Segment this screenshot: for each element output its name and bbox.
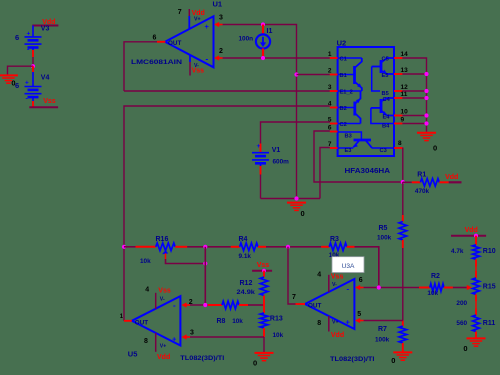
junction pin 10 right vertical	[424, 113, 428, 117]
resistor R8	[208, 304, 222, 306]
wire U2 pin 9 to right vertical	[402, 123, 426, 125]
U2 pin 14 stub	[394, 57, 402, 59]
svg-text:4: 4	[145, 287, 149, 294]
svg-text:HFA3046HA: HFA3046HA	[345, 168, 391, 175]
junction R8 row	[203, 303, 207, 307]
wire ground row	[261, 198, 321, 200]
svg-text:10: 10	[401, 109, 409, 116]
wire left bus (U2 pin4 to U5 out)	[124, 106, 330, 321]
battery V3	[32, 26, 34, 37]
svg-text:E1_2: E1_2	[340, 90, 353, 96]
svg-text:V4: V4	[41, 74, 50, 81]
svg-text:3: 3	[190, 330, 194, 337]
resistor R15 (pot)	[475, 271, 477, 278]
U1 output stub	[157, 41, 165, 43]
wire U5 pin2 to R8	[190, 304, 208, 306]
svg-text:TL082(3D)/TI: TL082(3D)/TI	[330, 356, 375, 363]
svg-text:10k: 10k	[140, 258, 151, 265]
svg-text:+: +	[257, 143, 261, 150]
label box U3A	[332, 257, 364, 273]
wire V1 to ground row	[260, 175, 262, 199]
U2 pin 11 stub	[394, 97, 402, 99]
junction pin 11 right vertical	[424, 96, 428, 100]
svg-text:U1: U1	[213, 0, 223, 9]
svg-text:+: +	[27, 30, 31, 37]
transistor Q3 (U2)	[338, 132, 362, 139]
wire R1 node down to R5	[402, 182, 404, 215]
svg-text:+: +	[25, 79, 29, 86]
IC U2 box	[338, 47, 394, 156]
svg-text:E5: E5	[382, 73, 389, 79]
wire U1 pin3 row to I1 top and corner	[223, 25, 297, 75]
power symbol Vdd (R1)	[449, 181, 462, 183]
transistor Q1 (U2)	[353, 66, 356, 84]
svg-text:13: 13	[401, 67, 409, 74]
svg-text:2: 2	[219, 48, 223, 55]
svg-text:R3: R3	[330, 236, 339, 243]
junction R1 node	[401, 180, 405, 184]
wire R15 to R11	[475, 301, 477, 308]
svg-text:Vss: Vss	[158, 288, 171, 295]
resistor R5	[402, 215, 404, 222]
svg-text:R13: R13	[270, 315, 283, 322]
svg-text:3: 3	[328, 84, 332, 91]
svg-text:R5: R5	[379, 225, 388, 232]
U2 pin 2 stub	[330, 74, 338, 76]
op-amp U3A	[305, 279, 354, 329]
svg-text:Vdd: Vdd	[465, 227, 478, 234]
power symbol Vss (R12)	[252, 270, 272, 272]
ground 0 (supply)	[0, 74, 18, 76]
U2 internal row B2	[338, 107, 355, 109]
svg-text:C5: C5	[382, 57, 389, 63]
power symbol Vss (bottom of V4)	[29, 106, 58, 108]
svg-text:6: 6	[153, 34, 157, 41]
svg-text:Vss: Vss	[257, 262, 270, 269]
ground 0 (R7)	[393, 351, 412, 353]
svg-text:Vss: Vss	[331, 273, 344, 280]
junction Vdd bar	[474, 234, 478, 238]
svg-text:V+: V+	[332, 319, 339, 325]
wire U2 pin3 row	[124, 90, 330, 92]
svg-text:V+: V+	[194, 16, 201, 22]
svg-text:10k: 10k	[232, 318, 243, 325]
U5 pin3 arrow	[181, 334, 186, 339]
svg-text:I1: I1	[267, 28, 273, 35]
U3A V+ pin (pin 8)	[328, 316, 330, 332]
junction R16/R4 row	[203, 245, 207, 249]
wire R16 wiper loop	[166, 259, 206, 264]
resistor R1	[403, 181, 412, 183]
svg-text:Vdd: Vdd	[445, 174, 458, 181]
svg-text:0: 0	[391, 356, 395, 365]
svg-text:C4: C4	[383, 97, 391, 103]
svg-text:E3: E3	[345, 148, 352, 154]
junction node V3/V4	[31, 64, 35, 68]
wire U2 pin8 down to R1 node	[402, 148, 404, 183]
U2 pin 9 stub	[394, 123, 402, 125]
U1 pin2 arrow	[214, 55, 219, 60]
resistor R13	[260, 313, 268, 328]
U3A pin6 arrow	[355, 285, 360, 290]
svg-text:B4: B4	[382, 124, 390, 130]
junction I1 top	[261, 22, 265, 26]
junction inverting node	[377, 285, 381, 289]
svg-text:7: 7	[178, 9, 182, 16]
battery V1	[260, 144, 262, 153]
svg-text:+: +	[205, 22, 210, 31]
wire divider to ground	[263, 337, 265, 352]
svg-text:+: +	[172, 335, 177, 344]
svg-text:OUT: OUT	[135, 319, 148, 326]
svg-text:10k: 10k	[427, 290, 438, 297]
R15 wiper arrow	[467, 285, 472, 290]
U2 pin 4 stub	[330, 107, 338, 109]
junction pin 9 right vertical	[424, 121, 428, 125]
ground 0 (R11)	[467, 337, 486, 339]
wire U1 out to left bus corner	[124, 42, 157, 91]
svg-text:470k: 470k	[415, 188, 430, 195]
resistor R11	[475, 308, 477, 315]
svg-text:8: 8	[398, 140, 402, 147]
U2 pin 8 stub	[394, 147, 403, 149]
svg-text:V3: V3	[41, 26, 50, 33]
svg-text:100k: 100k	[377, 234, 392, 241]
U3A output stub	[296, 303, 306, 305]
svg-text:V+: V+	[160, 343, 167, 349]
svg-text:R4: R4	[239, 236, 248, 243]
resistor R12	[263, 271, 265, 277]
wire R2 to R15 wiper	[453, 287, 467, 289]
svg-text:-: -	[206, 55, 209, 64]
wire R16 to R4	[187, 246, 231, 248]
svg-text:200: 200	[456, 300, 467, 307]
svg-text:5: 5	[357, 311, 361, 318]
svg-text:4: 4	[317, 272, 321, 279]
svg-text:U5: U5	[128, 350, 138, 359]
U3A pin5 arrow	[355, 318, 360, 323]
svg-text:3: 3	[219, 15, 223, 22]
wire U1 pin2 row to U2 pin1	[223, 57, 330, 59]
resistor R3	[321, 246, 329, 248]
svg-text:R11: R11	[483, 320, 496, 327]
svg-text:OUT: OUT	[308, 302, 321, 309]
wire U2 pin6 loop	[314, 131, 403, 182]
svg-text:560: 560	[456, 320, 467, 327]
wire U3A pin5 row	[364, 320, 403, 322]
svg-text:Vss: Vss	[192, 67, 205, 74]
wire junction to ground	[8, 66, 34, 74]
wire U2 pin 10 to right vertical	[402, 115, 426, 117]
wire R5 to U3A pin5 row	[402, 248, 404, 321]
svg-text:Vdd: Vdd	[331, 332, 344, 339]
wire R3 right to inverting node	[355, 247, 379, 288]
wire U2 pin5 to V1	[261, 122, 330, 144]
wire V3 to junction	[32, 57, 34, 66]
svg-text:V1: V1	[272, 147, 281, 154]
wire U5 pin3 row	[190, 336, 264, 338]
svg-text:1: 1	[328, 51, 332, 58]
svg-text:C2: C2	[340, 122, 347, 128]
ground 0 (R13)	[255, 352, 274, 354]
current source I1	[262, 25, 264, 35]
U2 internal row E1_2	[338, 90, 362, 92]
junction I1 bottom	[261, 56, 265, 60]
svg-text:LMC6081AIN: LMC6081AIN	[131, 59, 182, 66]
svg-text:U2: U2	[337, 38, 347, 47]
U2 internal row C2	[338, 123, 361, 125]
junction pin 13 right vertical	[424, 72, 428, 76]
ground 0 (U2 right)	[417, 132, 436, 134]
svg-text:B3: B3	[345, 133, 352, 139]
svg-text:U3A: U3A	[342, 263, 355, 270]
svg-text:11: 11	[401, 91, 408, 98]
wire U2 pin 13 to right vertical	[402, 73, 426, 75]
svg-text:8: 8	[144, 338, 148, 345]
svg-text:V-: V-	[160, 297, 165, 303]
svg-text:-: -	[347, 285, 350, 294]
U2 internal row B1	[338, 74, 355, 76]
wire U2 pin 12 to right vertical	[402, 90, 426, 92]
battery V4	[32, 66, 34, 72]
svg-text:C3: C3	[380, 148, 387, 154]
U5 V+ pin (pin 8)	[155, 333, 157, 352]
U2 pin 6 stub	[330, 131, 338, 133]
svg-text:R12: R12	[240, 280, 253, 287]
U1 V+ pin (pin 7)	[188, 9, 190, 16]
svg-text:7: 7	[292, 294, 296, 301]
U2 pin 10 stub	[394, 115, 402, 117]
U5 output stub	[124, 320, 132, 322]
op-amp U1	[165, 16, 214, 67]
U2 pin 1 stub	[330, 57, 338, 59]
resistor R16 (pot)	[136, 246, 156, 248]
U3A V- pin (pin 4)	[328, 275, 330, 292]
svg-text:600m: 600m	[273, 158, 290, 165]
svg-text:14: 14	[401, 51, 409, 58]
wire U3A pin6 to R2	[364, 287, 419, 289]
U2 pin 3 stub	[330, 90, 338, 92]
svg-text:+: +	[346, 318, 351, 327]
wire vertical x296 to ground row	[296, 75, 298, 199]
U1 V- pin (pin 4)	[189, 55, 191, 62]
svg-text:6: 6	[15, 81, 19, 90]
svg-text:R10: R10	[483, 248, 496, 255]
resistor R10	[475, 236, 477, 245]
transistor Q5 (U2)	[380, 60, 383, 73]
svg-text:R8: R8	[217, 318, 226, 325]
U5 V- pin (pin 4)	[155, 293, 157, 309]
wire U2 pin7 down	[320, 148, 330, 199]
svg-text:C1: C1	[340, 57, 347, 63]
svg-text:B1: B1	[340, 73, 347, 79]
transistor Q2 (U2)	[353, 102, 356, 116]
wire R4 to R3	[266, 246, 321, 248]
op-amp U5	[132, 296, 181, 345]
svg-text:-: -	[173, 301, 176, 310]
svg-text:4.7k: 4.7k	[451, 248, 464, 255]
svg-text:OUT: OUT	[168, 40, 181, 47]
svg-text:8: 8	[317, 320, 321, 327]
svg-text:24.9k: 24.9k	[237, 289, 256, 296]
svg-text:12: 12	[401, 84, 409, 91]
svg-text:100k: 100k	[375, 336, 390, 343]
junction wiper loop	[203, 261, 207, 265]
svg-text:R7: R7	[378, 326, 387, 333]
U2 pin 7 stub	[330, 147, 338, 149]
svg-text:E4: E4	[383, 115, 391, 121]
wire U2 pin 11 to right vertical	[402, 97, 426, 99]
junction U2 pin2 tap	[294, 72, 298, 76]
transistor Q4 (U2)	[380, 99, 383, 113]
wire bus to R16	[124, 246, 136, 248]
svg-text:9.1k: 9.1k	[239, 253, 252, 260]
svg-text:4: 4	[328, 101, 332, 108]
svg-text:R1: R1	[417, 171, 426, 178]
wire to U2 pin2	[297, 74, 330, 76]
svg-text:R16: R16	[156, 236, 169, 243]
svg-text:10k: 10k	[273, 332, 284, 339]
U2 pin 12 stub	[394, 90, 402, 92]
U2 internal row C1	[338, 57, 362, 59]
resistor R2	[419, 287, 430, 289]
svg-text:100n: 100n	[239, 35, 254, 42]
junction ground row	[294, 196, 298, 200]
junction Vss bar	[262, 269, 266, 273]
U2 pin 5 stub	[330, 123, 338, 125]
svg-text:0: 0	[433, 144, 437, 153]
wire R8 to divider	[248, 304, 264, 306]
junction R3 left / feedback	[286, 245, 290, 249]
svg-text:9: 9	[401, 117, 405, 124]
wire U2 pin14 to right vertical	[402, 58, 426, 132]
power symbol Vdd (top-left)	[32, 25, 58, 27]
svg-text:6: 6	[15, 33, 19, 42]
svg-text:6: 6	[359, 277, 363, 284]
svg-text:0: 0	[301, 209, 305, 218]
svg-text:0: 0	[463, 344, 467, 353]
U1 pin3 arrow	[214, 22, 219, 27]
resistor R4	[231, 246, 240, 248]
svg-text:V-: V-	[332, 282, 337, 288]
resistor R7	[402, 321, 404, 327]
svg-text:R15: R15	[483, 284, 496, 291]
svg-text:0: 0	[253, 359, 257, 368]
junction left bus / R16 row	[122, 245, 126, 249]
U5 pin2 arrow	[181, 302, 186, 307]
wire row junction down	[204, 247, 206, 305]
ground 0 (center)	[287, 202, 306, 204]
power symbol Vdd (R10)	[451, 235, 486, 237]
svg-text:B2: B2	[340, 106, 347, 112]
wire R10 to R15	[475, 267, 477, 272]
svg-text:TL082(3D)/TI: TL082(3D)/TI	[180, 355, 224, 362]
wire feedback node down to U3A out	[288, 247, 296, 304]
junction pin 12 right vertical	[424, 89, 428, 93]
svg-text:2: 2	[328, 68, 332, 75]
svg-text:Vdd: Vdd	[157, 354, 170, 361]
svg-text:R2: R2	[431, 273, 440, 280]
U2 pin 13 stub	[394, 73, 402, 75]
svg-text:Vss: Vss	[43, 98, 56, 105]
